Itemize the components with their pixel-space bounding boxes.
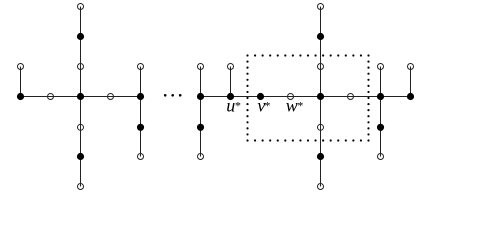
node: column F open bottom — [378, 154, 384, 160]
svg-text:*: * — [234, 99, 240, 113]
node: left tall column filled lower — [77, 153, 84, 160]
node: left tall column open upper — [78, 64, 84, 70]
node: open spine node 2 — [48, 94, 54, 100]
node: column D filled below — [197, 124, 204, 131]
node: open spine node right of center — [348, 94, 354, 100]
svg-text:*: * — [264, 99, 270, 113]
node: open spine node 4 — [108, 94, 114, 100]
node: left tall column filled hub — [77, 93, 84, 100]
node: column C open above — [138, 64, 144, 70]
node: column F filled spine — [377, 93, 384, 100]
node: center tall column open lower — [318, 124, 324, 130]
node: center tall column filled upper — [317, 33, 324, 40]
wire: stem of rightmost pendant column — [410, 67, 412, 97]
node: filled rightmost spine node — [407, 93, 414, 100]
node v* (filled) — [257, 93, 264, 100]
wire: stem of column D — [200, 67, 202, 157]
node: column C filled below — [137, 124, 144, 131]
wire: full stem of left tall column — [80, 7, 82, 187]
node: left tall column open lower — [78, 124, 84, 130]
wire: left spine segment — [21, 96, 141, 98]
node: left tall column open bottom — [78, 184, 84, 190]
node: column D open bottom — [198, 154, 204, 160]
node: left tall column filled upper — [77, 33, 84, 40]
wire: stem of column F — [380, 67, 382, 157]
node: column F filled below — [377, 124, 384, 131]
wire: right spine segment — [201, 96, 411, 98]
node: left tall column open top — [78, 4, 84, 10]
node: center tall column filled hub — [317, 93, 324, 100]
node: column F open above — [378, 64, 384, 70]
node: center tall column open upper — [318, 64, 324, 70]
dotted rectangle enclosing v*, w* and center column — [246, 54, 369, 141]
node: column D filled spine — [197, 93, 204, 100]
ellipsis between the two graph halves — [164, 94, 182, 97]
node: column C open bottom — [138, 154, 144, 160]
wire: stem of leftmost pendant column — [20, 67, 22, 97]
wire: stem of column C — [140, 67, 142, 157]
node: open pendant above u* — [228, 64, 234, 70]
node: open pendant above rightmost spine node — [408, 64, 414, 70]
node: column D open above — [198, 64, 204, 70]
node w* (open) — [288, 94, 294, 100]
node: column C filled spine — [137, 93, 144, 100]
node: center tall column open bottom — [318, 184, 324, 190]
node: center tall column open top — [318, 4, 324, 10]
wire: full stem of center tall column — [320, 7, 322, 187]
node: center tall column filled lower — [317, 153, 324, 160]
node: filled leftmost spine node — [17, 93, 24, 100]
node u* (filled) — [227, 93, 234, 100]
svg-text:*: * — [297, 99, 303, 113]
node: open pendant above leftmost spine node — [18, 64, 24, 70]
wire: stem above node u* — [230, 67, 232, 97]
